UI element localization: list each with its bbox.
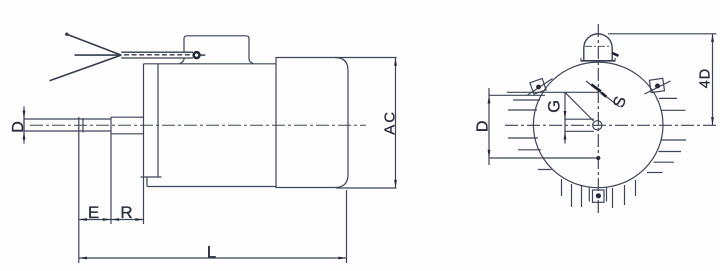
svg-text:AC: AC bbox=[381, 110, 398, 135]
vertical centerline end view bbox=[597, 24, 599, 213]
dome side bolt bbox=[612, 53, 618, 56]
shaft bbox=[24, 119, 111, 131]
extension lines AC bbox=[335, 58, 397, 189]
svg-text:D: D bbox=[10, 121, 27, 133]
extension line E/L left bbox=[78, 134, 80, 264]
svg-text:G: G bbox=[546, 100, 564, 113]
conduit tube bbox=[121, 52, 193, 58]
centerline left view bbox=[30, 124, 366, 126]
cable gland bbox=[194, 52, 206, 58]
bottom mounting bracket bbox=[589, 187, 606, 202]
terminal box bbox=[180, 36, 254, 64]
extension line body right bbox=[346, 190, 348, 263]
dimension D shaft bbox=[23, 107, 26, 144]
shaft shoulder ticks bbox=[79, 117, 83, 134]
clamp bolt upper-right bbox=[645, 78, 671, 94]
clamp bolt upper-left bbox=[528, 79, 553, 96]
wires bbox=[50, 33, 122, 81]
svg-text:E: E bbox=[88, 203, 99, 222]
keyway leader S bbox=[586, 81, 620, 107]
svg-text:L: L bbox=[207, 242, 216, 261]
dimension L line bbox=[79, 257, 347, 260]
dimension E/R line bbox=[79, 218, 144, 221]
dimension G arrows bbox=[564, 111, 567, 140]
motor body cylinder bbox=[276, 58, 348, 188]
horizontal centerline end view bbox=[505, 124, 716, 126]
fins right bbox=[647, 98, 686, 172]
keyway reference line bbox=[507, 91, 599, 93]
terminal dome bbox=[581, 34, 616, 61]
dimension AC line bbox=[394, 58, 397, 189]
extension line R at hub bbox=[110, 134, 112, 224]
shaft circle end view bbox=[593, 121, 602, 130]
motor front housing bbox=[144, 64, 277, 224]
front foot step bbox=[141, 177, 162, 187]
svg-text:D: D bbox=[474, 121, 491, 133]
svg-text:R: R bbox=[120, 203, 132, 222]
keyway triangle bbox=[564, 92, 594, 143]
fins bottom bbox=[562, 179, 636, 208]
motor end shield circle bbox=[533, 62, 663, 188]
shaft hub bbox=[111, 117, 144, 134]
dimension 4D bbox=[608, 34, 717, 126]
fins left bbox=[508, 100, 552, 170]
dimension D end view bbox=[488, 88, 601, 165]
svg-text:4D: 4D bbox=[698, 68, 714, 89]
